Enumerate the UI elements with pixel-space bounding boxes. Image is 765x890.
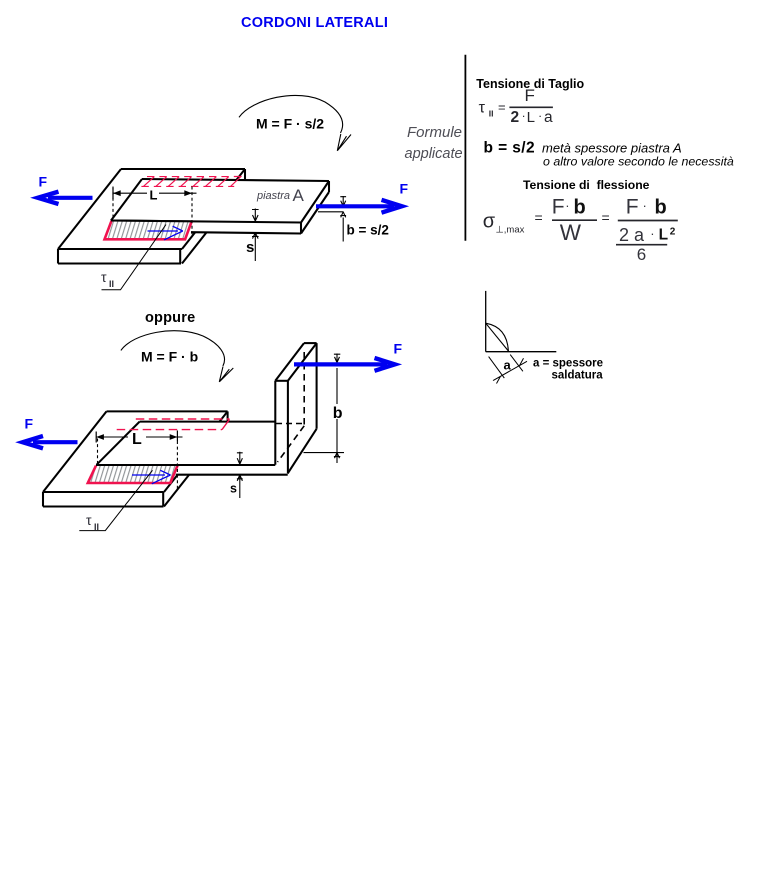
wire left edge (43, 411, 107, 492)
svg-text:b: b (333, 405, 343, 422)
dimension a line with arrows (493, 358, 527, 383)
wire flange top edge (304, 342, 317, 344)
svg-text:Formule: Formule (407, 124, 462, 141)
svg-text:piastra: piastra (256, 190, 290, 202)
wire bent plate back edge (140, 421, 276, 423)
wire flange inner vertical E (274, 381, 276, 465)
wire flange top-left slant (275, 343, 304, 381)
tau leader line (79, 470, 152, 530)
svg-text:F: F (39, 174, 48, 190)
svg-text:F: F (394, 341, 403, 357)
force arrow F right (bottom figure) (294, 358, 395, 371)
svg-text:·: · (538, 109, 542, 123)
svg-text:F: F (25, 416, 34, 432)
wire bent plate front bottom edge (176, 474, 288, 476)
svg-text:2: 2 (670, 227, 676, 238)
wire plate A right end bottom edge (301, 192, 329, 234)
dimension L (top figure) (113, 187, 197, 238)
svg-text:a: a (504, 358, 512, 373)
svg-text:τ: τ (479, 99, 486, 116)
svg-text:τ: τ (101, 269, 107, 285)
svg-text:τ: τ (86, 512, 92, 528)
corner vertical line (485, 291, 487, 352)
L dimension arrowhead right (bottom figure) (170, 434, 178, 440)
svg-text:M = F · s/2: M = F · s/2 (256, 116, 324, 132)
svg-text:II: II (489, 109, 494, 119)
wire plate A front bottom edge (191, 232, 301, 233)
weld shear arrow (blue) in bead (132, 470, 171, 484)
dimension s (top figure) (252, 209, 259, 262)
wire front top edge (58, 248, 182, 250)
wire bottom right edge (182, 184, 245, 264)
wire plate A front top edge (111, 221, 301, 223)
svg-text:F: F (626, 195, 639, 218)
svg-text:6: 6 (637, 245, 646, 264)
wire bead top edge (plate A front edge over bead) (111, 219, 193, 222)
tau leader line (102, 225, 167, 290)
wire flange outer right vertical G (316, 343, 318, 429)
wire plate A right end top edge (301, 181, 329, 223)
moment arc M = F s/2 (239, 95, 351, 150)
wire hidden inner bend edge (dashed) (278, 426, 305, 462)
moment arc M = F · b (121, 331, 233, 382)
wire flange top-right slant (288, 343, 317, 381)
svg-text:s: s (246, 239, 254, 256)
svg-text:=: = (535, 210, 543, 226)
weld bead (bottom figure) (88, 465, 179, 483)
dimension a extension lines (489, 355, 523, 379)
svg-text:a: a (544, 109, 553, 126)
wire front top edge (43, 491, 164, 493)
weld throat diagonal (486, 323, 509, 351)
wire plate A left end edge (111, 179, 142, 221)
wire hidden back edge (dashed) (276, 423, 304, 425)
hidden weld dashed lines (bottom figure) (117, 419, 230, 430)
moment arc arrowhead (337, 134, 351, 151)
svg-text:a = spessore: a = spessore (533, 358, 603, 370)
wire plate A front right vertical (300, 223, 302, 234)
wire right top edge (164, 411, 228, 492)
svg-text:A: A (293, 186, 305, 205)
svg-text:·: · (522, 109, 526, 123)
wire right back vertical (227, 411, 229, 426)
svg-text:F: F (400, 181, 409, 197)
moment arc arrowhead (219, 367, 233, 382)
dimension L (bottom figure) (96, 431, 182, 491)
bent plate (bottom figure) (97, 343, 317, 475)
svg-text:·: · (643, 198, 647, 213)
svg-text:applicate: applicate (405, 146, 463, 162)
svg-text:2 a: 2 a (619, 225, 645, 245)
svg-text:b: b (574, 196, 586, 218)
wire back edge (121, 168, 245, 170)
wire flange front vertical F (287, 381, 289, 474)
svg-text:·: · (650, 226, 654, 241)
wire bottom right edge (164, 426, 228, 507)
plate A (top figure) (109, 179, 329, 234)
svg-text:⊥,max: ⊥,max (496, 225, 525, 236)
svg-text:=: = (498, 100, 506, 115)
svg-text:=: = (602, 210, 610, 226)
wire hidden flange back vertical (dashed) (303, 352, 305, 425)
svg-text:L: L (150, 188, 158, 203)
svg-text:Tensione di flessione: Tensione di flessione (523, 178, 650, 192)
wire bent plate left end edge (97, 422, 140, 465)
svg-text:metà spessore piastra A: metà spessore piastra A (542, 141, 682, 156)
L dimension arrowhead right (top figure) (184, 190, 192, 196)
svg-text:·: · (565, 198, 569, 213)
svg-text:L: L (659, 227, 668, 244)
svg-text:b: b (655, 196, 667, 218)
wire plate A back edge (142, 179, 329, 181)
svg-text:L: L (132, 431, 142, 448)
svg-text:b = s/2: b = s/2 (347, 223, 389, 238)
dimension s (bottom figure) (237, 452, 243, 498)
wire front face (58, 249, 181, 264)
dimension b = s/2 (top figure) (318, 196, 346, 242)
hidden weld zigzag (top figure) (141, 176, 241, 186)
svg-text:W: W (560, 220, 582, 245)
wire front face (43, 492, 164, 507)
weld bead (top figure) (105, 221, 193, 240)
force arrow F left (bottom figure) (23, 436, 78, 448)
svg-text:M = F · b: M = F · b (141, 349, 198, 365)
svg-text:s: s (230, 482, 237, 496)
svg-text:2: 2 (511, 109, 520, 126)
wire back edge (107, 410, 228, 412)
L dimension arrowhead left (bottom figure) (96, 434, 104, 440)
svg-text:o altro valore secondo le nece: o altro valore secondo le necessità (543, 155, 734, 169)
svg-text:b = s/2: b = s/2 (484, 140, 535, 157)
wire bead top edge (bent plate front edge over bead) (96, 464, 178, 466)
corner horizontal line (486, 351, 557, 353)
svg-text:F: F (552, 195, 565, 218)
svg-text:L: L (527, 109, 535, 126)
svg-text:σ: σ (483, 210, 496, 232)
svg-text:saldatura: saldatura (552, 370, 604, 382)
dimension b (bottom figure) (304, 354, 345, 464)
svg-text:CORDONI LATERALI: CORDONI LATERALI (241, 15, 388, 31)
bottom plate (bottom figure) (43, 411, 228, 506)
wire right back vertical (244, 169, 246, 184)
force arrow F left (top figure) (38, 192, 93, 204)
svg-text:F: F (525, 86, 535, 105)
weld shear arrow (blue) in bead (148, 226, 183, 240)
wire right top edge (182, 169, 245, 249)
wire plate A right back vertical (328, 181, 330, 192)
wire flange top front edge (275, 380, 288, 382)
L dimension arrowhead left (top figure) (113, 190, 121, 196)
svg-text:II: II (109, 279, 114, 289)
wire bent plate front top edge (97, 464, 276, 466)
weld face curve (486, 323, 509, 351)
divider line (464, 55, 466, 241)
force arrow F right (top figure) (316, 200, 402, 213)
wire flange bottom right slant H (288, 429, 317, 474)
svg-text:oppure: oppure (145, 310, 195, 326)
lower plate (top figure) (58, 169, 245, 264)
wire left edge (58, 169, 121, 249)
